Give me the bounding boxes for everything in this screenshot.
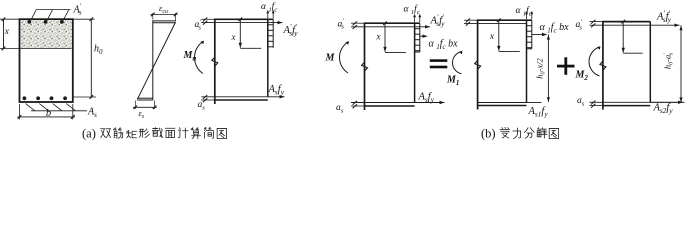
stress block ladder [526, 20, 528, 49]
alpha1fc bx resultant arrow D4 [420, 35, 427, 37]
x dimension (left) [0, 18, 20, 20]
top rebar dots [27, 20, 31, 24]
left edge [214, 19, 216, 104]
svg-text:A′sf′y: A′sf′y [656, 9, 672, 25]
strain top (eps_cu) doubled line [153, 20, 176, 22]
top edge [214, 18, 273, 20]
svg-text:b: b [46, 108, 51, 119]
svg-text:x: x [376, 31, 381, 41]
x depth dimension [498, 20, 500, 51]
svg-text:A′s: A′s [73, 3, 82, 17]
strain bottom doubled line [137, 97, 152, 99]
bottom edge [364, 105, 415, 107]
bottom edge [477, 105, 526, 107]
bottom steel line [201, 96, 284, 98]
right edge [267, 19, 269, 97]
alpha1fc tiny arrows [267, 13, 269, 18]
eps_s dimension [134, 101, 136, 110]
break symbol [475, 60, 481, 69]
svg-text:a′s: a′s [338, 18, 345, 31]
svg-text:x: x [489, 31, 494, 41]
top edge [477, 19, 532, 21]
svg-text:x: x [231, 32, 236, 42]
left edge [602, 21, 604, 110]
break symbol [600, 61, 606, 70]
bottom edge [602, 105, 650, 107]
h0 dimension (right) [73, 18, 95, 20]
top steel line [589, 24, 679, 26]
stress block ladder [414, 23, 416, 52]
x depth dimension [622, 22, 624, 53]
leaders to As [26, 104, 35, 111]
break symbol [362, 62, 368, 71]
h0-a's dimension line D6 [680, 25, 682, 102]
svg-text:x: x [4, 27, 10, 37]
eps_cu dimension [152, 13, 154, 20]
moment arc Mu [195, 42, 204, 74]
top edge [602, 21, 650, 23]
svg-text:A′sf′y: A′sf′y [283, 22, 299, 38]
svg-text:(a): (a) [82, 127, 96, 141]
break symbol [212, 57, 218, 66]
bottom rebar dots [23, 96, 27, 100]
moment arc M2 [589, 47, 600, 76]
alpha1fc tiny arrows [526, 14, 528, 19]
alpha1fc tiny arrows [414, 17, 416, 22]
compression zone stipple [21, 20, 72, 48]
alpha1fcbx resultant arrow D5 + lever dim [532, 34, 547, 36]
equals sign [430, 59, 448, 62]
bottom steel line [478, 102, 527, 104]
left edge [477, 20, 479, 110]
leaders to A's [31, 10, 37, 21]
svg-text:A′sf′y: A′sf′y [430, 13, 446, 29]
plus sign [557, 65, 575, 68]
top steel line [201, 22, 282, 24]
x depth dimension [239, 19, 241, 48]
svg-text:a′s: a′s [576, 18, 583, 31]
top steel line [351, 26, 430, 28]
x depth dimension [384, 23, 386, 52]
b dimension [19, 104, 21, 120]
svg-text:a′s: a′s [195, 18, 202, 31]
neutral axis line [0, 48, 72, 50]
stress block ladder [267, 19, 269, 48]
h0-x/2 dimension line [547, 35, 549, 103]
right edge [526, 20, 528, 102]
strain axis [152, 20, 154, 100]
svg-text:(b): (b) [481, 127, 496, 141]
right edge [414, 23, 416, 102]
bottom steel line [589, 101, 683, 103]
moment arc M1 [453, 52, 462, 74]
left edge [364, 23, 366, 111]
top edge [364, 22, 420, 24]
section outline D1 [20, 19, 73, 102]
svg-text:M: M [325, 53, 336, 64]
bottom edge [214, 99, 267, 101]
strain diagonal [137, 22, 175, 99]
right edge [649, 22, 651, 103]
moment arc M [340, 42, 349, 73]
bottom steel line [351, 102, 445, 104]
top steel line [464, 23, 526, 25]
